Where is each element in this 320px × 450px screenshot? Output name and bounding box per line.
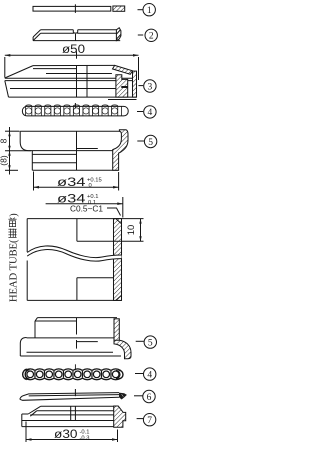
svg-text:6: 6 <box>147 393 152 403</box>
svg-text:ø50: ø50 <box>62 44 85 56</box>
leader to balloon 5 <box>137 140 144 142</box>
balloon 2 <box>145 29 157 42</box>
balloon 6 <box>143 390 155 403</box>
svg-text:2: 2 <box>149 32 154 42</box>
leader to balloon 7 <box>137 418 143 420</box>
ball retainer 4 lower <box>23 364 123 379</box>
leader to balloon 5 lower <box>136 340 144 342</box>
ball retainer 4 upper <box>22 103 128 116</box>
leader to balloon 3 <box>138 85 143 87</box>
svg-text:1: 1 <box>147 6 152 16</box>
svg-text:4: 4 <box>147 370 152 380</box>
leader to balloon 1 <box>138 9 143 11</box>
dimension diameter 34 +0.1/-0.1 <box>46 194 123 218</box>
svg-text:4: 4 <box>148 108 153 118</box>
svg-text:7: 7 <box>147 416 152 426</box>
svg-text:-0.3: -0.3 <box>80 435 90 441</box>
balloon 3 <box>144 80 156 93</box>
balloon 7 <box>143 414 155 427</box>
svg-text:10: 10 <box>126 225 137 236</box>
svg-text:0: 0 <box>89 183 92 189</box>
head tube body <box>27 219 121 301</box>
svg-text:(8): (8) <box>0 155 9 166</box>
balloon 1 <box>143 4 155 17</box>
leader to balloon 2 <box>138 34 143 36</box>
leader to balloon 4 lower <box>135 373 143 375</box>
keyed washer 2 <box>33 28 121 41</box>
svg-text:5: 5 <box>148 338 153 348</box>
head tube break wave <box>27 246 121 261</box>
crown race 7 <box>22 406 126 427</box>
seal ring 6 <box>20 389 127 400</box>
svg-text:5: 5 <box>148 138 153 148</box>
leader to balloon 6 <box>134 395 143 397</box>
top cone cover 3 <box>5 65 137 99</box>
dimension diameter 34.6 +0.15/0 <box>34 172 119 191</box>
chamfer note C0.5~C1 <box>70 204 121 216</box>
balloon 4 <box>144 106 156 118</box>
washer 1 body <box>33 4 111 13</box>
balloon 5 <box>144 135 156 148</box>
dimension 10 <box>114 219 144 242</box>
balloon 5 lower <box>144 336 156 349</box>
head tube label HEAD TUBE(頭管) <box>8 213 19 302</box>
dimension 8 and (8) <box>0 127 31 175</box>
washer 1 section hatch block <box>113 6 125 11</box>
svg-text:C0.5~C1: C0.5~C1 <box>70 204 103 214</box>
dimension diameter 50 <box>5 44 139 80</box>
svg-text:): ) <box>9 213 20 217</box>
balloon 4 lower <box>144 368 156 381</box>
svg-text:8: 8 <box>0 138 9 143</box>
lower bearing cup 5 <box>20 318 131 359</box>
dimension diameter 30 -0.1/-0.3 <box>26 422 118 443</box>
leader to balloon 4 <box>137 111 143 113</box>
upper bearing cup 5 <box>20 130 128 171</box>
svg-text:HEAD TUBE(: HEAD TUBE( <box>9 239 20 302</box>
svg-text:3: 3 <box>148 82 153 92</box>
